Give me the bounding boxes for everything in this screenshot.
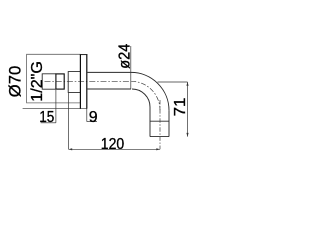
spout tube horizontal run (Ø24) top line: [87, 71, 131, 73]
wall plate outline (square escutcheon profile): [27, 54, 81, 103]
svg-text:Ø70: Ø70: [6, 66, 25, 97]
svg-text:120: 120: [101, 135, 124, 153]
svg-text:ø24: ø24: [116, 44, 134, 69]
extension line at thread start: [55, 90, 57, 123]
down tube inner vertical: [149, 107, 151, 137]
collar cylinder behind flange: [68, 72, 80, 93]
spout bend outer arc: [131, 72, 169, 110]
dimension line 120: [69, 148, 161, 150]
down tube centerline: [159, 100, 161, 149]
label 15 underline leader: [41, 122, 56, 124]
threaded nipple 1/2"G: [56, 74, 64, 89]
extension line flange right: [86, 109, 88, 122]
dimension extension line Ø24: [130, 46, 132, 89]
svg-text:15: 15: [39, 109, 54, 126]
tail pipe (smooth section before thread): [42, 74, 56, 89]
svg-text:71: 71: [171, 98, 188, 117]
wall flange (9 mm thick): [80, 54, 88, 108]
dimension row line for 15 and 9: [23, 108, 87, 110]
down tube outer vertical: [168, 110, 170, 136]
spout end piece (aerator box): [150, 121, 169, 136]
svg-text:1/2"G: 1/2"G: [29, 61, 46, 102]
svg-text:9: 9: [89, 109, 98, 126]
arrowhead 71 top: [186, 82, 188, 86]
spout tube horizontal run bottom line: [87, 88, 131, 90]
label 9 underline leader: [87, 121, 97, 123]
arrowhead 120 right: [156, 148, 160, 150]
bend centerline arc: [131, 81, 160, 110]
dimension line 71: [187, 82, 189, 137]
extension line at collar face to 120 dimension: [68, 93, 70, 150]
spout bend inner arc: [132, 89, 150, 107]
centerline (horizontal tube axis): [45, 80, 132, 82]
arrowhead 120 left: [69, 148, 73, 150]
extension line 71 top: [158, 81, 188, 83]
arrowhead 71 bottom: [186, 133, 188, 137]
